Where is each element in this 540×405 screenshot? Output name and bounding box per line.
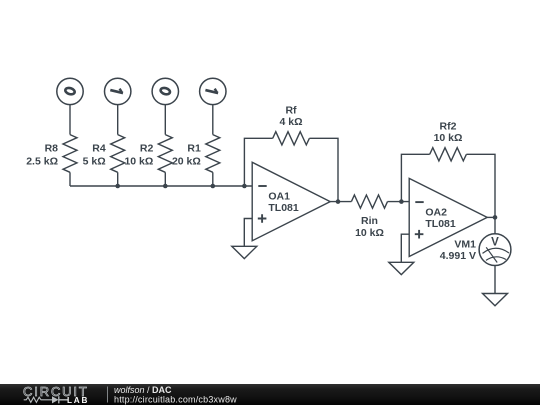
svg-text:Rf2: Rf2 [440,120,457,132]
svg-text:5 kΩ: 5 kΩ [83,155,106,167]
svg-text:VM1: VM1 [454,239,476,251]
svg-text:TL081: TL081 [425,218,456,230]
svg-text:10 kΩ: 10 kΩ [355,227,384,239]
svg-text:R1: R1 [187,143,201,155]
svg-text:OA1: OA1 [268,191,290,203]
svg-text:Rin: Rin [361,215,378,227]
svg-text:R8: R8 [45,143,59,155]
svg-text:Rf: Rf [285,104,297,116]
svg-text:R4: R4 [92,143,106,155]
svg-text:2.5 kΩ: 2.5 kΩ [26,155,58,167]
svg-text:4.991 V: 4.991 V [440,250,476,262]
svg-text:LAB: LAB [67,396,89,405]
svg-text:OA2: OA2 [425,206,447,218]
svg-text:4 kΩ: 4 kΩ [279,116,302,128]
svg-text:R2: R2 [140,143,154,155]
svg-text:20 kΩ: 20 kΩ [172,155,201,167]
svg-text:V: V [491,236,499,248]
svg-text:http://circuitlab.com/cb3xw8w: http://circuitlab.com/cb3xw8w [114,394,237,404]
svg-text:10 kΩ: 10 kΩ [124,155,153,167]
svg-text:10 kΩ: 10 kΩ [434,132,463,144]
svg-text:TL081: TL081 [268,202,299,214]
